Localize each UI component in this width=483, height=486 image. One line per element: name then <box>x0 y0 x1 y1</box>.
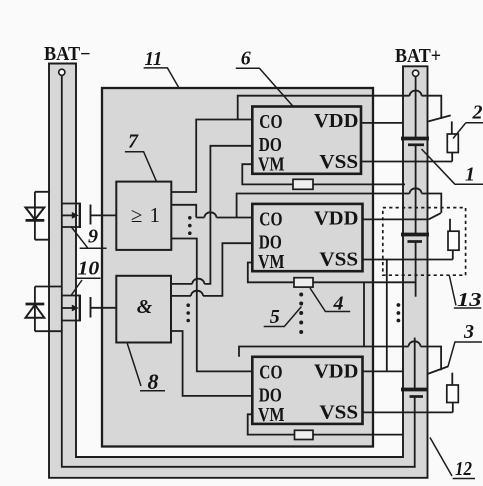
block 2 pin texts <box>258 208 358 273</box>
resistor R2 bottom lead <box>451 153 453 162</box>
wire VM3 resistor to pack <box>313 434 403 436</box>
label 10 pointer <box>71 278 101 295</box>
BAT+ terminal circle <box>413 70 419 76</box>
chain ellipsis 5 <box>299 293 303 335</box>
battery cell 3 positive plate <box>401 388 427 392</box>
svg-text:≥: ≥ <box>131 203 143 227</box>
svg-text:DO: DO <box>259 232 282 253</box>
svg-text:5: 5 <box>270 306 280 328</box>
wire VSS2 <box>363 259 453 261</box>
label 6 pointer <box>236 68 293 106</box>
wire cell3- down to bottom band <box>414 397 416 468</box>
block 1 pin texts <box>258 111 358 176</box>
wire VM1 resistor to step <box>313 183 405 185</box>
wire AND output to Q10 gate <box>91 307 117 309</box>
diode D2 branch wires <box>35 287 62 332</box>
svg-text:BAT−: BAT− <box>44 44 91 65</box>
wire CO1 to OR input 1 <box>171 120 252 193</box>
wire OR output to Q9 gate <box>91 214 117 216</box>
MOSFET Q10 arrow <box>72 305 79 312</box>
tap diagonal cell2 <box>429 213 441 219</box>
wire VM2 loop <box>248 263 294 283</box>
IC block 6 (unit 1) <box>252 107 361 174</box>
svg-text:VSS: VSS <box>319 249 358 270</box>
wire VM1 loop <box>242 164 293 184</box>
resistor R3 top lead <box>449 219 451 231</box>
wire DO3 to AND input 3 <box>171 331 253 396</box>
battery cell 2 negative plate <box>408 240 423 243</box>
svg-text:1: 1 <box>150 203 161 227</box>
svg-text:3: 3 <box>463 321 474 343</box>
wire VSS3 <box>363 411 453 413</box>
hop arc DO1 over CO3 line <box>192 279 204 284</box>
label 5 pointer <box>264 307 302 327</box>
resistor under block3 <box>295 430 314 439</box>
svg-text:7: 7 <box>128 130 139 152</box>
tap diagonal cell1 <box>428 115 450 121</box>
wire VDD2 <box>363 218 429 220</box>
resistor R3 bottom lead <box>452 250 454 259</box>
wire cell2- stub down <box>415 242 417 297</box>
svg-text:CO: CO <box>259 112 282 133</box>
MOSFET Q9 arrow <box>72 212 79 219</box>
hop arc CO2 over DO1 line <box>204 212 216 217</box>
MOSFET Q9 gate bar <box>90 205 92 225</box>
MOSFET Q10 source lead <box>62 307 75 309</box>
resistor R2 top lead <box>451 121 453 134</box>
module box 11 <box>102 88 373 447</box>
wire CO2 to OR input 2 <box>171 205 252 218</box>
BAT- terminal circle <box>59 69 65 75</box>
wire unit3 feed line to cell 3 tap <box>239 347 441 371</box>
MOSFET Q10 gate bar <box>90 297 92 318</box>
svg-text:12: 12 <box>455 458 472 480</box>
block 3 pin texts <box>258 361 358 426</box>
svg-text:DO: DO <box>259 135 282 156</box>
diode D1 branch wires <box>35 192 50 240</box>
diode D1 cathode bar <box>26 219 45 222</box>
wire VSS1 <box>361 161 452 163</box>
wire BAT+ center conductor (terminal to cell1) <box>415 76 417 138</box>
svg-text:1: 1 <box>465 163 475 185</box>
battery cell 3 negative plate <box>410 395 424 398</box>
MOSFET Q9 top lead <box>62 203 80 205</box>
diode D2 triangle <box>26 305 45 318</box>
hop arc unit1 wire over pack conductor <box>410 91 422 96</box>
hop arc unit2 wire over pack conductor <box>410 188 422 193</box>
AND gate 8 box <box>116 276 171 343</box>
svg-text:9: 9 <box>88 226 98 248</box>
AND input ellipsis <box>186 303 190 322</box>
label 1 pointer <box>422 149 483 184</box>
wire VM2 branch down to unit3 feed <box>363 282 365 346</box>
label 11 pointer <box>144 68 179 88</box>
wire DO2 to AND input 2 <box>171 243 253 296</box>
battery pack U-shaped bus (BAT- bar, bottom band, BAT+ bar) <box>49 64 428 478</box>
MOSFET Q9 source lead <box>62 214 75 216</box>
label 13 pointer <box>449 276 481 309</box>
svg-text:CO: CO <box>259 209 282 230</box>
diode D1 triangle <box>26 208 45 220</box>
label 3 pointer <box>448 342 482 367</box>
resistor Rcell3 bottom lead <box>452 403 454 413</box>
battery cell 1 positive plate <box>401 137 429 141</box>
wire VM2 resistor to pack conductor <box>313 281 416 283</box>
resistor Rcell3 <box>447 385 459 403</box>
wire VSS2 branch down to VDD3 <box>386 260 388 372</box>
label 2 pointer <box>453 123 483 139</box>
wire unit2 feed: CO2 junction up and right to cell 2 tap <box>237 194 442 218</box>
svg-text:10: 10 <box>78 258 100 280</box>
svg-text:4: 4 <box>333 292 344 314</box>
wire VM3 loop <box>248 414 295 434</box>
OR gate 7 box <box>116 182 171 250</box>
label 8 pointer <box>127 344 165 391</box>
svg-text:&: & <box>137 296 153 318</box>
label 12 pointer <box>430 438 475 479</box>
resistor under block1 <box>293 179 313 189</box>
svg-text:13: 13 <box>457 289 482 311</box>
MOSFET Q10 channel <box>79 295 81 322</box>
MOSFET Q10 bottom lead <box>62 320 80 322</box>
svg-text:VDD: VDD <box>314 361 358 382</box>
wire VDD3 <box>363 370 403 372</box>
hop arc unit3 wire over pack conductor <box>409 341 421 346</box>
OR input ellipsis <box>188 216 192 235</box>
svg-text:DO: DO <box>259 385 282 406</box>
svg-text:11: 11 <box>145 48 163 70</box>
label 7 pointer <box>125 152 157 182</box>
svg-text:VDD: VDD <box>314 111 358 132</box>
svg-text:VSS: VSS <box>319 152 358 173</box>
wire VDD1 <box>361 122 403 124</box>
wire cell3+ stub <box>414 338 416 390</box>
svg-text:VM: VM <box>258 252 285 273</box>
wire unit1 feed: CO1 junction up and right to cell 1 tap <box>238 96 442 120</box>
svg-text:VM: VM <box>258 155 285 176</box>
battery cell 1 negative plate <box>408 143 424 146</box>
svg-text:CO: CO <box>259 362 282 383</box>
resistor 4 under block2 <box>294 278 313 287</box>
MOSFET Q10 top lead <box>62 295 80 297</box>
dashed box 13 <box>383 208 466 276</box>
diode D2 cathode bar <box>26 303 45 306</box>
hop arc DO2 over CO3 line <box>191 291 203 296</box>
battery cell 2 positive plate <box>401 233 429 237</box>
svg-text:VM: VM <box>258 405 285 426</box>
svg-text:BAT+: BAT+ <box>395 46 441 67</box>
label 9 pointer <box>71 227 107 249</box>
wire DO1 to AND input 1 <box>171 146 253 284</box>
cell ellipsis dots on pack <box>397 303 401 322</box>
resistor Rcell3 top lead <box>451 373 453 385</box>
resistor R3 <box>448 231 459 250</box>
wire BAT- center conductor <box>62 75 416 466</box>
resistor R2 <box>447 134 458 153</box>
MOSFET Q9 bottom lead <box>62 226 80 228</box>
svg-text:VSS: VSS <box>319 402 358 423</box>
svg-text:8: 8 <box>148 369 159 394</box>
wire CO3 to OR input 3 <box>171 239 252 372</box>
IC block unit 3 <box>252 357 362 424</box>
wire cell1- to cell2+ <box>415 145 417 235</box>
svg-text:2: 2 <box>472 102 483 124</box>
tap diagonal cell3 <box>428 366 449 374</box>
svg-text:VDD: VDD <box>314 208 358 229</box>
IC block unit 2 <box>252 204 362 271</box>
MOSFET Q9 channel <box>79 203 81 228</box>
svg-text:6: 6 <box>241 48 251 70</box>
label 4 pointer <box>310 288 350 312</box>
